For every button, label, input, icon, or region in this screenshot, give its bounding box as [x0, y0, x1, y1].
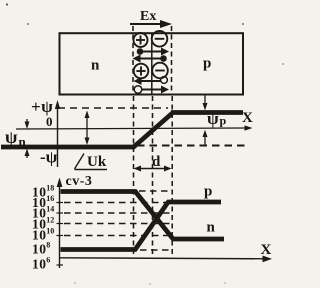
center dashed line lower	[152, 96, 154, 256]
svg-text:6: 6	[46, 256, 50, 265]
scan speckle 5	[149, 283, 151, 285]
concentration axis	[59, 182, 61, 268]
svg-text:n: n	[91, 58, 100, 74]
depletion width d arrows	[134, 166, 172, 172]
psi-n dimension arrows	[25, 119, 30, 158]
svg-text:ψ: ψ	[5, 127, 18, 147]
semiconductor rectangle	[60, 33, 244, 94]
scan speckle 4	[74, 282, 76, 284]
svg-text:8: 8	[46, 241, 50, 250]
electron moving left row2	[133, 55, 167, 63]
potential axis	[57, 104, 59, 167]
Ex field arrow	[130, 23, 162, 25]
dashed n level extension	[137, 145, 246, 147]
dashed 10e8 extension	[140, 249, 172, 251]
svg-text:18: 18	[46, 184, 54, 193]
n concentration falling	[135, 191, 174, 240]
Uk dimension arrow	[85, 111, 90, 146]
svg-text:p: p	[204, 184, 212, 200]
donor ion plus row3	[134, 64, 149, 79]
svg-text:p: p	[220, 114, 227, 128]
dashed level 10e16	[64, 202, 173, 204]
p concentration flat left	[61, 247, 137, 252]
svg-text:X: X	[242, 110, 253, 126]
donor ion plus row1	[134, 33, 148, 47]
p concentration rising	[135, 202, 169, 251]
svg-text:n: n	[19, 134, 27, 149]
n concentration flat left	[61, 189, 137, 194]
svg-text:n: n	[207, 220, 216, 236]
hole moving right row4	[134, 86, 169, 94]
tick 10e6	[57, 264, 64, 266]
tick 10e10	[57, 235, 64, 237]
svg-text:12: 12	[46, 216, 54, 225]
svg-text:0: 0	[46, 114, 53, 129]
p concentration flat right	[167, 200, 221, 205]
svg-text:X: X	[261, 242, 272, 258]
left dashed boundary lower	[133, 96, 135, 256]
svg-text:14: 14	[46, 205, 54, 214]
zero potential line	[16, 128, 246, 129]
bottom X axis	[60, 258, 267, 259]
acceptor ion minus row3	[152, 63, 168, 79]
svg-text:ψ: ψ	[207, 109, 219, 128]
n concentration flat right	[172, 237, 224, 242]
psi-p dimension arrows	[203, 95, 208, 146]
scan speckle 2	[27, 23, 29, 25]
svg-text:10: 10	[32, 257, 47, 272]
svg-text:cv-3: cv-3	[66, 174, 93, 189]
junction center line	[151, 33, 153, 94]
scan speckle 6	[224, 282, 226, 284]
Uk annotation leader	[75, 154, 85, 170]
svg-text:10: 10	[32, 242, 47, 257]
depletion right dashed boundary	[171, 26, 173, 95]
Uk dashed level	[58, 107, 168, 109]
svg-text:Uk: Uk	[87, 154, 107, 170]
electron moving right row2	[137, 48, 169, 56]
depletion left dashed boundary	[132, 26, 134, 95]
svg-text:-ψ: -ψ	[40, 148, 58, 167]
dashed level 10e14	[64, 212, 173, 214]
hole moving left row4	[134, 77, 168, 85]
dashed 10e18 extension	[139, 190, 172, 192]
scan speckle 3	[242, 23, 244, 25]
svg-text:10: 10	[46, 227, 54, 236]
tick 10e12	[57, 223, 64, 225]
acceptor ion minus row1	[152, 31, 168, 47]
potential curve n side	[1, 145, 134, 150]
tick 10e16	[57, 202, 64, 204]
tick 10e14	[57, 212, 64, 214]
potential curve p side	[171, 110, 243, 115]
scan speckle 1	[6, 3, 8, 5]
svg-text:d: d	[152, 154, 161, 170]
right dashed boundary lower	[171, 96, 173, 256]
svg-text:p: p	[203, 56, 211, 72]
svg-text:10: 10	[32, 228, 47, 243]
svg-text:16: 16	[46, 194, 54, 203]
svg-text:Ex: Ex	[140, 9, 156, 24]
dashed level 10e10	[64, 235, 173, 237]
scan speckle 7	[282, 63, 284, 65]
potential curve transition	[133, 113, 174, 149]
dashed level 10e12	[64, 223, 173, 225]
